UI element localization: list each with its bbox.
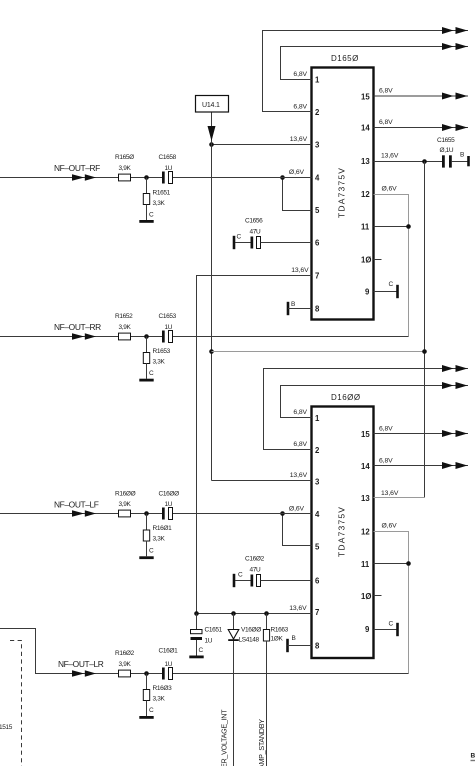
svg-text:1Ø: 1Ø	[361, 592, 371, 601]
svg-text:R16Ø1: R16Ø1	[153, 525, 173, 532]
svg-text:13,6V: 13,6V	[290, 136, 308, 143]
wire pin 7 13,6V down	[197, 276, 312, 614]
node junction R1652/R1653/C1653	[144, 334, 149, 339]
svg-text:3,9K: 3,9K	[119, 501, 132, 508]
svg-text:5: 5	[315, 206, 320, 215]
node arrow out top line 1	[442, 27, 468, 34]
node junction on 13,6V link	[422, 349, 427, 354]
wire pin 13 13,6V to C1655	[374, 161, 443, 163]
wire pin 11 D1600	[374, 563, 409, 565]
node C at pin 9	[374, 281, 399, 298]
wire pin1 of D1600 to second feed line with arrows	[281, 386, 469, 418]
svg-text:47U: 47U	[250, 567, 262, 574]
svg-text:C: C	[149, 547, 154, 554]
pin 10 stub D1600	[374, 595, 382, 597]
svg-text:13,6V: 13,6V	[289, 605, 307, 612]
svg-text:1U: 1U	[165, 165, 173, 172]
wire 13,6V vertical to lower section	[424, 162, 426, 498]
svg-text:47U: 47U	[250, 229, 262, 236]
svg-text:11: 11	[361, 560, 370, 569]
svg-text:C1658: C1658	[159, 154, 177, 161]
node junction R1650/R1651/C1658	[144, 175, 149, 180]
svg-text:C: C	[149, 212, 154, 219]
svg-text:6,8V: 6,8V	[293, 409, 307, 416]
svg-text:14: 14	[361, 124, 370, 133]
svg-text:R16ØØ: R16ØØ	[115, 491, 136, 498]
svg-text:R1663: R1663	[271, 627, 289, 634]
svg-text:13: 13	[361, 157, 370, 166]
svg-text:3,9K: 3,9K	[119, 661, 132, 668]
svg-text:C: C	[237, 234, 242, 241]
node junction 13,6V rail / C1651	[194, 611, 199, 616]
svg-text:C16ØØ: C16ØØ	[159, 491, 180, 498]
svg-text:6,8V: 6,8V	[293, 441, 307, 448]
svg-text:6,8V: 6,8V	[379, 458, 393, 465]
svg-text:6: 6	[315, 239, 320, 248]
wire gray 13,6V link between rails	[212, 351, 425, 353]
svg-text:3,3K: 3,3K	[153, 536, 166, 543]
svg-text:C: C	[389, 281, 394, 288]
node NF-OUT-RR input net	[0, 322, 409, 340]
svg-text:Ø,6V: Ø,6V	[289, 169, 305, 176]
svg-text:6,8V: 6,8V	[293, 71, 307, 78]
capacitor C1651 1U electrolytic with ground C	[189, 614, 222, 659]
resistor R1652 3,9K	[115, 313, 133, 340]
svg-text:C16Ø1: C16Ø1	[159, 648, 179, 655]
capacitor C1601 1U	[159, 648, 179, 680]
op-amp U1: power amplifier IC D1650 TDA7375V	[312, 54, 374, 320]
resistor R1653 3,3K with ground C	[139, 337, 170, 382]
capacitor C1653 1U	[159, 313, 177, 343]
svg-text:C1653: C1653	[159, 313, 177, 320]
svg-text:3,3K: 3,3K	[153, 358, 166, 365]
svg-text:D165Ø: D165Ø	[331, 54, 359, 63]
svg-text:15: 15	[361, 430, 370, 439]
resistor R1600 3,9K	[115, 491, 136, 517]
svg-text:R165Ø: R165Ø	[115, 154, 134, 161]
wire pin 5 loop from pin4 node	[283, 178, 312, 211]
svg-text:AMP_STANDBY: AMP_STANDBY	[257, 719, 266, 766]
svg-text:13,6V: 13,6V	[291, 267, 309, 274]
svg-text:14: 14	[361, 462, 370, 471]
svg-text:13,6V: 13,6V	[381, 490, 399, 497]
node NF-OUT-RF input net	[0, 163, 312, 181]
svg-text:3: 3	[315, 141, 320, 150]
node junction R1602/R1603/C1601	[144, 671, 149, 676]
boundary dashed block edge 1515	[0, 641, 22, 766]
node arrow out line 2 D1600	[442, 382, 468, 389]
wire pin 15 D1600 output with arrows	[374, 433, 469, 435]
node junction pin4/pin5 D1600	[280, 511, 285, 516]
capacitor C1655 0,1U	[437, 137, 468, 168]
svg-text:NF–OUT–RF: NF–OUT–RF	[54, 163, 100, 173]
svg-text:6,8V: 6,8V	[379, 426, 393, 433]
resistor R1651 3,3K with ground C	[139, 178, 170, 223]
svg-text:R16Ø3: R16Ø3	[153, 685, 173, 692]
wire pin 12 D1600 0,6V gray loop to LR input	[374, 532, 409, 674]
svg-text:8: 8	[315, 305, 320, 314]
capacitor C1600 1U	[159, 491, 180, 520]
svg-text:C: C	[389, 621, 394, 628]
svg-text:1: 1	[315, 76, 320, 85]
wire pin 5 loop from pin4 node D1600	[283, 514, 312, 546]
pin 10 stub	[374, 259, 382, 261]
svg-text:TDA7375V: TDA7375V	[337, 167, 347, 218]
supply tap U14.1	[196, 96, 229, 481]
wire pin 7 D1600 13,6V rail	[197, 613, 312, 615]
svg-text:Ø,6V: Ø,6V	[382, 523, 398, 530]
svg-text:Ø,6V: Ø,6V	[289, 506, 305, 513]
node junction pin11/pin12 D1600	[406, 561, 411, 566]
svg-text:Ø,1U: Ø,1U	[440, 147, 454, 154]
node NF-OUT-LF input net	[0, 500, 312, 517]
node junction on pin3 wire	[209, 142, 214, 147]
wire pin 12 0,6V gray loop to RR input	[374, 195, 409, 337]
svg-text:6,8V: 6,8V	[379, 88, 393, 95]
svg-text:1U: 1U	[205, 638, 213, 645]
node junction pin13 / 13,6V rail	[422, 159, 427, 164]
svg-text:C: C	[199, 647, 204, 654]
svg-text:13,6V: 13,6V	[290, 472, 308, 479]
svg-text:ER_VOLTAGE_INT: ER_VOLTAGE_INT	[220, 709, 229, 766]
svg-text:C1655: C1655	[437, 137, 455, 144]
node junction pin11/pin12	[406, 224, 411, 229]
svg-text:13,6V: 13,6V	[381, 153, 399, 160]
svg-text:5: 5	[315, 543, 320, 552]
node NF-OUT-LR input net	[0, 629, 409, 677]
wire pin 3 13,6V	[212, 144, 312, 146]
capacitor C1602 47U at pin 6 D1600	[233, 556, 312, 588]
svg-text:4: 4	[315, 174, 320, 183]
svg-text:C: C	[149, 370, 154, 377]
svg-text:3: 3	[315, 478, 320, 487]
svg-text:B: B	[471, 753, 475, 760]
node junction R1600/R1601/C1600	[144, 511, 149, 516]
svg-text:7: 7	[315, 608, 319, 617]
svg-text:C1656: C1656	[245, 218, 263, 225]
svg-text:1: 1	[315, 414, 320, 423]
node B at pin 8	[287, 301, 312, 315]
wire pin 14 D1600 output with arrows	[374, 465, 469, 467]
svg-text:13: 13	[361, 494, 370, 503]
resistor R1601 3,3K with ground C	[139, 514, 172, 560]
wire pin1 of D1650 to second feed line with arrows	[281, 47, 469, 80]
svg-text:B: B	[292, 635, 296, 642]
svg-text:R1652: R1652	[115, 313, 133, 320]
svg-text:1U: 1U	[165, 324, 173, 331]
svg-text:6,8V: 6,8V	[293, 104, 307, 111]
svg-text:1515: 1515	[0, 724, 13, 731]
svg-text:B: B	[460, 152, 464, 159]
wire pin2 of D1650 to top feed line with arrows	[263, 31, 469, 112]
node junction pin4/pin5	[280, 175, 285, 180]
svg-text:6,8V: 6,8V	[379, 119, 393, 126]
svg-text:1U: 1U	[165, 661, 173, 668]
wire pin2 of D1600 to top feed line with arrows	[264, 369, 469, 450]
svg-text:C1651: C1651	[205, 627, 223, 634]
resistor R1663 10K	[263, 614, 288, 766]
svg-text:1U: 1U	[165, 501, 173, 508]
capacitor C1658 1U	[159, 154, 177, 184]
svg-text:1ØK: 1ØK	[271, 636, 284, 643]
svg-text:15: 15	[361, 93, 370, 102]
svg-text:7: 7	[315, 272, 319, 281]
svg-text:C16Ø2: C16Ø2	[245, 556, 265, 563]
svg-text:C: C	[149, 707, 154, 714]
svg-text:R1651: R1651	[153, 189, 171, 196]
diode V1600 LS4148	[228, 614, 261, 766]
svg-text:4: 4	[315, 510, 320, 519]
node junction 13,6V rail / V1600	[231, 611, 236, 616]
wire pin 14 output with arrows	[374, 127, 469, 129]
svg-text:1Ø: 1Ø	[361, 256, 371, 265]
svg-text:9: 9	[365, 288, 370, 297]
svg-text:NF–OUT–RR: NF–OUT–RR	[54, 322, 101, 332]
node C at pin 9 D1600	[374, 621, 399, 637]
node junction U14.1 line / gray 13,6V link	[209, 349, 214, 354]
svg-text:12: 12	[361, 528, 370, 537]
svg-text:C: C	[238, 572, 243, 579]
resistor R1650 3,9K	[115, 154, 134, 181]
svg-text:3,3K: 3,3K	[153, 695, 166, 702]
wire pin 15 output with arrows	[374, 95, 469, 97]
wire pin 3 D1600 13,6V from U14.1 line	[212, 480, 312, 482]
svg-text:V16ØØ: V16ØØ	[241, 627, 261, 634]
svg-text:Ø,6V: Ø,6V	[382, 185, 398, 192]
node junction 13,6V rail / R1663	[264, 611, 269, 616]
node B at pin 8 D1600	[286, 635, 311, 652]
svg-text:11: 11	[361, 223, 370, 232]
svg-text:6: 6	[315, 577, 320, 586]
wire pin 13 D1600 13,6V gray stub	[374, 497, 425, 499]
node arrow out top line 2	[442, 43, 468, 50]
op-amp U2: power amplifier IC D1600 TDA7375V	[312, 393, 374, 658]
svg-text:U14.1: U14.1	[202, 102, 220, 109]
svg-text:NF–OUT–LF: NF–OUT–LF	[54, 500, 99, 510]
svg-text:R16Ø2: R16Ø2	[115, 650, 135, 657]
svg-text:8: 8	[315, 642, 320, 651]
node arrow out line 1 D1600	[442, 365, 468, 372]
svg-text:2: 2	[315, 446, 320, 455]
svg-text:R1653: R1653	[153, 348, 171, 355]
svg-text:3,9K: 3,9K	[119, 165, 132, 172]
svg-text:D16ØØ: D16ØØ	[331, 393, 361, 402]
svg-text:2: 2	[315, 108, 320, 117]
svg-text:12: 12	[361, 190, 370, 199]
svg-text:9: 9	[365, 625, 370, 634]
svg-text:TDA7375V: TDA7375V	[337, 506, 347, 557]
svg-text:3,9K: 3,9K	[119, 324, 132, 331]
svg-text:LS4148: LS4148	[239, 636, 260, 643]
svg-text:B: B	[291, 301, 295, 308]
label partial sheet text bottom right corner	[471, 753, 475, 761]
resistor R1602 3,9K	[115, 650, 135, 677]
svg-text:NF–OUT–LR: NF–OUT–LR	[58, 659, 104, 669]
svg-text:3,3K: 3,3K	[153, 200, 166, 207]
node B at C1655	[460, 152, 470, 167]
capacitor C1656 47U at pin 6	[233, 218, 312, 250]
wire pin 11	[374, 226, 409, 228]
resistor R1603 3,3K with ground C	[139, 674, 172, 719]
